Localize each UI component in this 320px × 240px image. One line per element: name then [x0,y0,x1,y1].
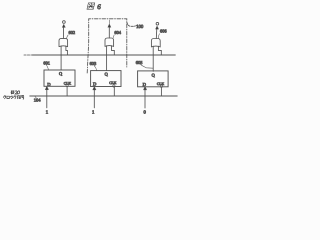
svg-text:603: 603 [90,61,97,66]
svg-text:CLK: CLK [109,81,117,85]
svg-text:605: 605 [136,60,143,65]
svg-text:104: 104 [34,97,42,102]
svg-text:100: 100 [136,24,144,30]
svg-text:606: 606 [160,29,167,34]
svg-text:602: 602 [69,30,76,35]
svg-text:601: 601 [43,61,50,66]
svg-text:604: 604 [114,30,121,35]
svg-text:6: 6 [97,3,101,11]
